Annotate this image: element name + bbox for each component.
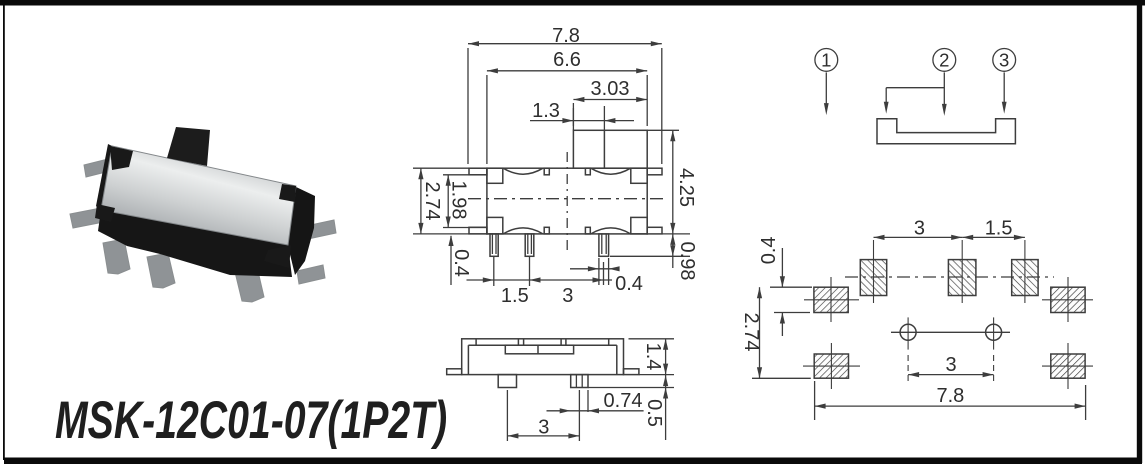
dimension 0.5 <box>665 375 667 440</box>
dimension 0.5 extension line <box>588 387 674 389</box>
svg-text:1: 1 <box>821 50 831 71</box>
dimension 7.8 extension lines <box>467 48 469 164</box>
border bottom bar <box>4 458 1142 465</box>
terminal 2 branch leader arrow <box>886 87 944 89</box>
product photo: corner cap top-right <box>279 184 296 202</box>
svg-text:3: 3 <box>914 218 925 240</box>
land pattern: left lower pad <box>814 354 848 378</box>
product photo: left side pin upper <box>84 158 114 177</box>
dimension 3 land bottom <box>908 374 994 376</box>
top view: knob position line <box>603 130 605 168</box>
svg-text:1.98: 1.98 <box>448 181 470 220</box>
border left line <box>3 5 5 460</box>
top view: pin 1 <box>490 234 498 256</box>
top view: right tab upper <box>647 168 662 175</box>
svg-text:2: 2 <box>939 50 949 71</box>
land pattern: hole left <box>900 324 916 340</box>
top view: spring arc top-left <box>503 168 543 174</box>
dimension 1.5 land <box>962 235 973 240</box>
svg-text:0.4: 0.4 <box>615 273 643 295</box>
dimension 2.74 extension lines <box>413 167 487 169</box>
svg-text:3.03: 3.03 <box>591 78 630 100</box>
product photo: black right end cap <box>288 186 315 275</box>
svg-text:2.74: 2.74 <box>740 313 762 352</box>
land pattern: centerline <box>845 276 1054 278</box>
top view: left tab upper <box>469 168 487 175</box>
product photo: bottom pin 1 <box>103 239 130 274</box>
dimension 6.6 extension lines <box>486 75 488 164</box>
product photo: corner cap bottom-right <box>264 245 291 268</box>
dimension 6.6 <box>487 70 647 72</box>
dimension 0.4 land <box>781 248 783 287</box>
svg-text:6.6: 6.6 <box>553 49 581 71</box>
svg-text:0.4: 0.4 <box>758 236 780 264</box>
land pattern: hole right <box>986 324 1002 340</box>
svg-text:7.8: 7.8 <box>936 385 964 407</box>
top view: right tab lower <box>647 227 662 234</box>
dimension 0.74 <box>547 410 644 412</box>
top view: contact square bottom-left <box>487 217 503 234</box>
svg-text:0.74: 0.74 <box>604 390 643 412</box>
svg-text:1.5: 1.5 <box>501 285 529 307</box>
product photo: bottom pin 3 <box>235 267 264 302</box>
land pattern: top pad 2 <box>948 260 976 296</box>
top view: pin 2 <box>525 234 534 256</box>
terminal 1 leader arrow <box>825 72 827 104</box>
dimension 3 side <box>507 435 579 437</box>
dimension 1.4 extension lines <box>629 338 675 340</box>
top view: horizontal centerline <box>468 198 668 200</box>
product photo: corner cap bottom-left <box>95 204 115 222</box>
top view: left tab lower <box>469 227 487 234</box>
top view: notch top-right <box>585 168 590 175</box>
dimension 3 top view <box>593 277 604 282</box>
dimension 0.4 pin <box>570 268 617 270</box>
dimension 1.5 <box>467 279 613 281</box>
product photo: corner cap top-left <box>110 146 133 170</box>
border right bar <box>1137 4 1142 463</box>
product photo: bottom pin 2 <box>147 253 175 288</box>
svg-text:3: 3 <box>562 285 573 307</box>
product photo: metal top face <box>101 146 296 245</box>
dimension 0.98 extension line <box>610 255 690 257</box>
product photo: right side pin upper <box>306 220 336 239</box>
dimension 1.98 <box>447 175 449 228</box>
svg-text:0.4: 0.4 <box>450 249 472 277</box>
side view: pin A <box>498 375 516 388</box>
land pattern: hole connecting line <box>891 331 1010 333</box>
product photo: right side pin lower <box>297 265 325 284</box>
dimension 3 land top <box>874 236 963 238</box>
dimension 0.4 land extension lines <box>770 286 812 288</box>
land pattern: top pad 3 <box>1012 260 1038 296</box>
dimension 7.8 <box>468 43 662 45</box>
product photo: left side pin lower <box>70 207 109 228</box>
svg-text:3: 3 <box>999 50 1009 71</box>
dimension 2.74 land extension line <box>752 377 811 379</box>
land pattern: right lower pad <box>1051 354 1085 378</box>
svg-text:0.98: 0.98 <box>676 242 698 281</box>
dimension 2.74 <box>420 168 422 234</box>
dimension 1.5 and 3 extension lines <box>493 256 495 286</box>
side view: right foot <box>624 369 639 375</box>
top view: knob outline <box>573 130 647 168</box>
top view: contact square top-left <box>487 168 503 183</box>
dimension 0.98 <box>672 234 674 268</box>
dimension 7.8 land <box>815 405 1086 407</box>
dimension 3 side extension lines <box>506 390 508 441</box>
side view: knob slot <box>505 345 573 354</box>
side view: pin B <box>571 375 588 388</box>
svg-text:0.5: 0.5 <box>643 399 665 427</box>
dimension 0.4 pin extension lines <box>598 258 600 285</box>
top view: spring arc top-right <box>591 168 631 174</box>
top view: notch bottom-left <box>544 227 549 234</box>
side view: cover inner lines <box>467 345 469 374</box>
svg-text:2.74: 2.74 <box>421 182 443 221</box>
product photo: black left edge <box>96 144 114 211</box>
svg-text:3: 3 <box>538 417 549 439</box>
dimension 7.8 land extension lines <box>814 381 816 420</box>
side view: cover tabs <box>475 339 477 345</box>
land pattern: left upper pad <box>814 287 848 312</box>
dimension 1.98 extension lines <box>443 174 487 176</box>
top view: spring arc bottom-left <box>503 228 543 234</box>
top view: pin 3 <box>599 234 609 256</box>
dimension 4.25 <box>672 130 674 234</box>
svg-text:1.3: 1.3 <box>532 100 560 122</box>
dimension 4.25 extension lines <box>646 129 648 131</box>
top view: notch top-left <box>544 168 549 175</box>
top view: body outline <box>487 168 647 234</box>
svg-text:1.4: 1.4 <box>642 343 664 371</box>
product photo: slider knob <box>167 127 210 166</box>
svg-text:MSK-12C01-07(1P2T): MSK-12C01-07(1P2T) <box>55 390 447 449</box>
svg-text:7.8: 7.8 <box>552 25 580 47</box>
top view: vertical centerline <box>566 152 568 250</box>
dimension 1.3 extension lines <box>572 108 574 130</box>
dimension 1.3 <box>530 120 634 122</box>
terminal 3 symbol <box>993 49 1016 72</box>
dimension 3.03 extension line <box>572 103 574 126</box>
top view: notch bottom-right <box>585 227 590 234</box>
dimension 3.03 <box>573 99 647 101</box>
product photo: black underside band <box>98 210 292 277</box>
land pattern: top pad 1 <box>860 260 886 296</box>
dimension 0.74 extension line <box>587 390 589 412</box>
side view: body outline <box>462 339 624 375</box>
svg-text:4.25: 4.25 <box>675 168 697 207</box>
svg-text:3: 3 <box>946 354 957 376</box>
dimension 1.4 <box>665 339 667 375</box>
top view: contact square top-right <box>631 168 647 183</box>
svg-text:1.5: 1.5 <box>985 218 1013 240</box>
top view: contact square bottom-right <box>631 217 647 234</box>
top view: spring arc bottom-right <box>591 228 631 234</box>
terminal 2 symbol <box>933 49 956 72</box>
dimension 2.74 land <box>759 287 761 378</box>
terminal 3 leader arrow <box>1003 72 1005 103</box>
terminal 1 symbol <box>815 49 838 72</box>
terminal 2 leader arrow <box>943 72 945 105</box>
land pattern: right upper pad <box>1051 287 1085 312</box>
dimension 0.4 left <box>450 236 452 285</box>
side view: left foot <box>447 369 462 375</box>
border top bar <box>0 0 1145 6</box>
switch frame profile <box>877 119 1015 144</box>
